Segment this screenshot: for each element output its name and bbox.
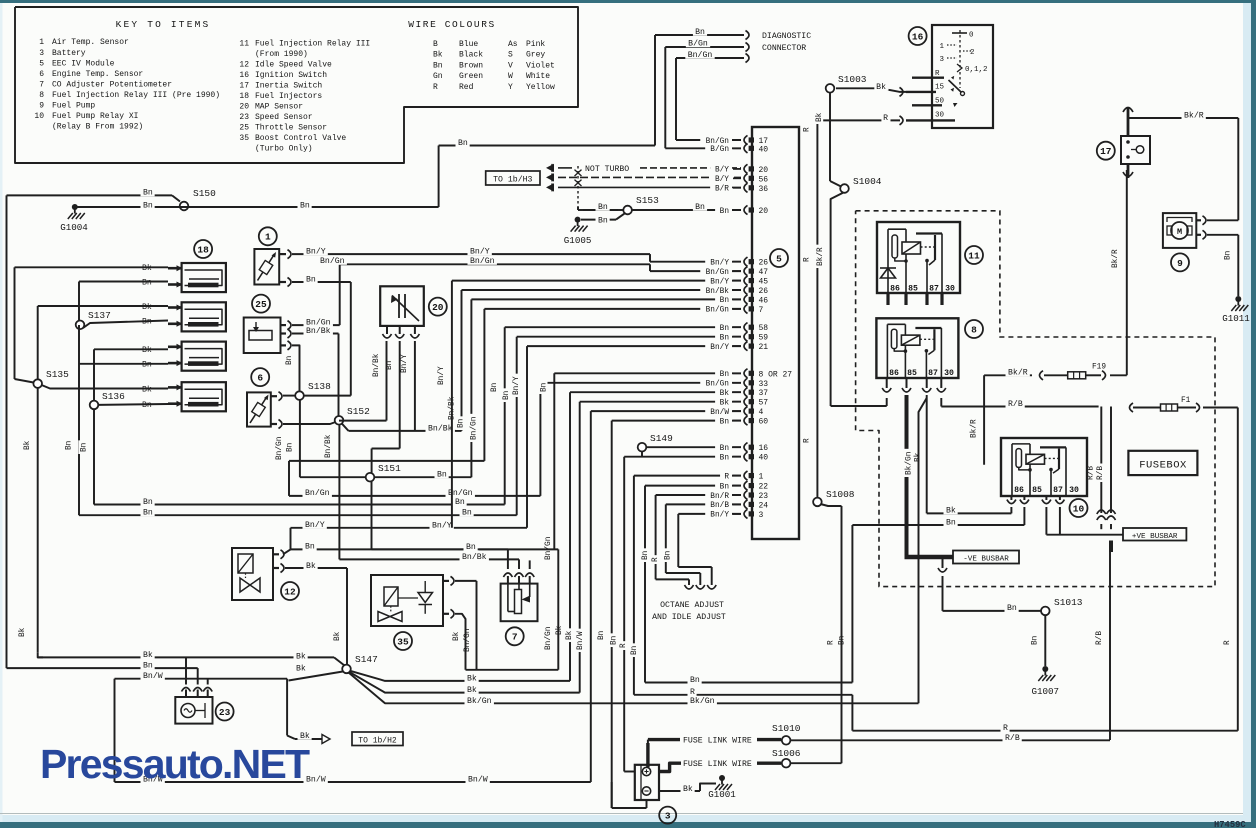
wire Bk/R S1004 drop bbox=[831, 193, 843, 406]
svg-text:5: 5 bbox=[776, 253, 782, 264]
wire R/B down to fuse link bbox=[1109, 552, 1111, 740]
svg-text:Pink: Pink bbox=[526, 40, 545, 49]
thick stub below +VE busbar bbox=[1109, 541, 1113, 553]
label R/B rot down bbox=[1094, 628, 1104, 647]
label 10 circle bbox=[1070, 499, 1088, 517]
label Bk/R top bbox=[1182, 110, 1206, 121]
svg-text:WIRE COLOURS: WIRE COLOURS bbox=[408, 19, 496, 30]
svg-text:87: 87 bbox=[1053, 486, 1063, 495]
arrow row3 bbox=[546, 183, 554, 191]
node S150 bbox=[180, 188, 216, 210]
svg-text:Yellow: Yellow bbox=[526, 83, 555, 92]
svg-text:18: 18 bbox=[239, 92, 249, 101]
svg-text:25: 25 bbox=[239, 124, 249, 133]
wire Bn/Gn exit bbox=[289, 495, 540, 497]
svg-text:1: 1 bbox=[39, 38, 44, 47]
svg-text:F1: F1 bbox=[1181, 397, 1191, 405]
wire Bk/R vertical from F19 bbox=[983, 375, 985, 465]
svg-text:Idle Speed Valve: Idle Speed Valve bbox=[255, 61, 332, 70]
label Bk/R F19 bbox=[1006, 367, 1030, 378]
label Bk/R rot bbox=[815, 245, 825, 268]
svg-text:Bn/Gn: Bn/Gn bbox=[320, 256, 345, 266]
svg-text:S149: S149 bbox=[650, 433, 673, 444]
svg-text:16: 16 bbox=[912, 31, 924, 42]
EEC IV module connector 5 bbox=[752, 127, 799, 539]
svg-text:Fuel Pump: Fuel Pump bbox=[52, 102, 95, 111]
svg-text:S152: S152 bbox=[347, 406, 370, 417]
svg-text:Bk/R: Bk/R bbox=[817, 247, 825, 266]
wire R vertical to S1008 bbox=[816, 120, 818, 497]
relay 11 pin stubs bbox=[888, 293, 942, 305]
svg-text:Bn: Bn bbox=[720, 325, 729, 333]
svg-text:Bk/R: Bk/R bbox=[1184, 110, 1204, 120]
wire Bn to speed sensor bbox=[7, 668, 198, 684]
label R/B bbox=[1006, 398, 1025, 409]
-VE BUSBAR box bbox=[953, 551, 1019, 564]
ECU pin symbols, numbers and wire colours bbox=[700, 135, 792, 520]
svg-text:Engine Temp. Sensor: Engine Temp. Sensor bbox=[52, 70, 143, 79]
wire R/B horizontal bbox=[941, 406, 1098, 408]
wire battery loop under bbox=[612, 782, 647, 808]
svg-text:Bn/Y: Bn/Y bbox=[305, 520, 325, 530]
label 3 circle bbox=[659, 807, 676, 824]
svg-text:Bn: Bn bbox=[839, 636, 847, 645]
wire Bn diag bbox=[655, 35, 744, 146]
svg-text:Bn/Y: Bn/Y bbox=[710, 344, 729, 352]
label Bn/Y s1 b bbox=[468, 246, 492, 256]
svg-text:G1001: G1001 bbox=[708, 789, 736, 800]
node S1003 bbox=[826, 74, 867, 93]
label Bn rot b23 bbox=[640, 548, 650, 562]
sensor 1 thermistor bbox=[258, 252, 277, 281]
svg-text:B/Gn: B/Gn bbox=[688, 38, 708, 48]
text NOT TURBO bbox=[583, 163, 632, 174]
svg-text:Bk: Bk bbox=[683, 784, 693, 794]
label Bn rot relay10 bbox=[837, 633, 847, 647]
wire Bn S1013 down bbox=[1044, 615, 1046, 666]
svg-text:Bn/R: Bn/R bbox=[710, 493, 729, 501]
svg-text:Bn: Bn bbox=[143, 662, 153, 671]
svg-text:1: 1 bbox=[265, 232, 271, 243]
svg-text:OCTANE ADJUST: OCTANE ADJUST bbox=[660, 601, 724, 610]
label Bn rot pump bbox=[1223, 248, 1233, 262]
svg-text:Bk: Bk bbox=[19, 627, 27, 637]
label Bn exit a1 bbox=[141, 496, 155, 507]
node S149 bbox=[638, 433, 673, 452]
svg-text:S1010: S1010 bbox=[772, 723, 801, 734]
svg-text:Bn: Bn bbox=[306, 275, 316, 284]
relay 10 pins bbox=[1007, 496, 1065, 504]
battery 3 box bbox=[635, 765, 659, 800]
label Bn/Gn s25 bbox=[304, 317, 333, 328]
svg-text:Bn: Bn bbox=[300, 201, 310, 210]
wire pin24 L bbox=[666, 504, 741, 573]
svg-text:24: 24 bbox=[759, 501, 769, 510]
svg-text:20: 20 bbox=[432, 302, 444, 313]
svg-text:Bn: Bn bbox=[80, 443, 88, 452]
label Bk r10 bbox=[944, 505, 958, 516]
label Bk S147 left upper bbox=[294, 651, 308, 662]
wire pump top pin bbox=[1207, 219, 1238, 221]
ground G1004 bbox=[60, 204, 88, 233]
wire Bk/Gn relay8 pin87 branch bbox=[919, 398, 927, 703]
svg-text:23: 23 bbox=[759, 492, 769, 501]
wire Bn injector1 bbox=[79, 282, 168, 322]
wire Bn upper run to diagnostic bbox=[439, 145, 655, 147]
wire pin7 riser bbox=[484, 309, 741, 461]
svg-text:87: 87 bbox=[928, 369, 938, 378]
sensor 25 pins bbox=[281, 321, 292, 350]
svg-text:18: 18 bbox=[197, 244, 209, 255]
watermark Pressauto.NET bbox=[40, 741, 310, 787]
wire S149 drop bbox=[641, 452, 643, 457]
wire pin1 L bbox=[634, 476, 741, 695]
svg-text:17: 17 bbox=[1100, 146, 1112, 157]
wire comp12 feed drop bbox=[290, 528, 292, 550]
svg-text:8: 8 bbox=[39, 91, 44, 100]
svg-text:9: 9 bbox=[1177, 258, 1183, 269]
wire Bk injector1 bbox=[15, 267, 169, 382]
svg-text:22: 22 bbox=[759, 483, 769, 492]
svg-text:S137: S137 bbox=[88, 310, 111, 321]
label Bn/Y rot map bbox=[399, 352, 409, 375]
label Bn ss bbox=[141, 660, 155, 671]
wire pin23 L bbox=[656, 495, 741, 579]
wire Bk/R inertia vertical bbox=[1126, 170, 1128, 375]
svg-text:Bn/Gn: Bn/Gn bbox=[276, 437, 284, 460]
svg-text:Bn: Bn bbox=[665, 551, 673, 560]
svg-text:Bn: Bn bbox=[305, 543, 315, 552]
node S1008 bbox=[813, 489, 855, 506]
svg-text:As: As bbox=[508, 40, 518, 49]
wire S147 to Bk riser a bbox=[351, 671, 571, 681]
svg-text:Bn: Bn bbox=[598, 203, 608, 212]
svg-text:Bn/Gn: Bn/Gn bbox=[706, 307, 729, 315]
svg-text:Bn/W: Bn/W bbox=[468, 774, 488, 784]
svg-text:Bn/Y: Bn/Y bbox=[306, 246, 326, 256]
wire pin40b L bbox=[624, 457, 741, 772]
sensor 25 potentiometer bbox=[249, 322, 272, 340]
svg-text:Bn: Bn bbox=[462, 508, 472, 517]
svg-text:M: M bbox=[1177, 227, 1182, 237]
octane adjust pins bbox=[656, 567, 717, 589]
svg-text:G1004: G1004 bbox=[60, 222, 88, 233]
svg-text:Ignition Switch: Ignition Switch bbox=[255, 71, 327, 80]
label Bn mid a bbox=[688, 674, 702, 685]
label Bk rot b37 bbox=[554, 623, 564, 637]
svg-text:Bk: Bk bbox=[296, 663, 306, 673]
svg-text:35: 35 bbox=[239, 134, 249, 143]
wire sensor6 to S138 bbox=[283, 395, 295, 397]
border bottom teal bar bbox=[0, 822, 1256, 828]
svg-text:Bk/Gn: Bk/Gn bbox=[690, 696, 715, 706]
label Bn/Gn diag bbox=[685, 49, 714, 60]
svg-text:Fuel Injectors: Fuel Injectors bbox=[255, 92, 322, 101]
label R rot s1006 bbox=[826, 638, 836, 647]
svg-text:MAP Sensor: MAP Sensor bbox=[255, 103, 303, 112]
label Bn r10 bbox=[944, 517, 958, 528]
relay 10 pin labels bbox=[1014, 486, 1079, 495]
ignition switch lever bbox=[949, 76, 965, 107]
svg-text:S153: S153 bbox=[636, 195, 659, 206]
wire Bk/R S1004 to relay8 pin86 bbox=[831, 398, 887, 406]
key list column 1 bbox=[34, 38, 220, 131]
svg-text:7: 7 bbox=[759, 306, 764, 315]
svg-text:S147: S147 bbox=[355, 654, 378, 665]
svg-text:Bn: Bn bbox=[143, 498, 153, 507]
wire pin21 L bbox=[527, 346, 741, 528]
svg-text:R: R bbox=[433, 83, 438, 92]
label Bk rot lower bbox=[17, 625, 27, 639]
CO adjuster internal bbox=[508, 584, 530, 614]
label Bn/Gn top a bbox=[318, 255, 347, 266]
svg-text:Bn: Bn bbox=[143, 508, 153, 517]
label Bn G1005 bbox=[596, 215, 610, 226]
label Bn/Bk s25 bbox=[304, 325, 333, 336]
label Bn/Y exit b bbox=[430, 520, 454, 531]
label R ignition bbox=[881, 112, 890, 123]
wire Bn/Gn sensor25 riser bbox=[292, 264, 340, 325]
label R mid a bbox=[688, 687, 697, 698]
svg-text:CONNECTOR: CONNECTOR bbox=[762, 44, 806, 53]
wire pin59 L bbox=[517, 337, 741, 516]
svg-text:Bn: Bn bbox=[433, 61, 443, 70]
key box outline bbox=[15, 7, 578, 163]
svg-text:30: 30 bbox=[945, 285, 955, 294]
wire colours table bbox=[433, 40, 555, 92]
node S1013 bbox=[1041, 597, 1083, 615]
ground G1011 bbox=[1222, 296, 1250, 324]
svg-text:Bn: Bn bbox=[142, 401, 152, 410]
wire S149 branch to battery plus bbox=[624, 771, 635, 773]
label 23 circle bbox=[216, 703, 234, 721]
border right light strip bbox=[1243, 3, 1251, 822]
svg-text:Bk/R: Bk/R bbox=[1112, 249, 1120, 268]
relay 11 pin labels bbox=[890, 285, 955, 294]
MAP sensor internal bbox=[391, 294, 419, 321]
node S135 bbox=[33, 369, 69, 388]
thick wire -VE from relay8 pin85 bbox=[905, 395, 954, 557]
wire Bn sensor1 to S138 bbox=[292, 282, 351, 396]
label Bn/Y rot b21 bbox=[511, 374, 521, 397]
label Bn S150 right bbox=[298, 200, 312, 211]
svg-text:White: White bbox=[526, 72, 550, 81]
wire F1 right bbox=[1178, 403, 1238, 412]
wire Bk valve35 bottom pin bbox=[455, 614, 466, 670]
svg-text:35: 35 bbox=[397, 636, 409, 647]
wire Bn exit b bbox=[79, 514, 517, 516]
svg-text:Bn: Bn bbox=[720, 455, 729, 463]
wire pin16 to S149 bbox=[646, 446, 741, 448]
wire Bk S1003 drop bbox=[830, 93, 841, 187]
svg-text:Bn: Bn bbox=[287, 443, 295, 452]
fuel injectors 18 (four) bbox=[168, 263, 226, 411]
svg-text:EEC IV Module: EEC IV Module bbox=[52, 59, 115, 68]
svg-text:47: 47 bbox=[759, 268, 769, 277]
border left light strip bbox=[0, 3, 3, 822]
svg-text:S1006: S1006 bbox=[772, 748, 801, 759]
wire Bn/Y sensor1 to ECU bbox=[292, 254, 741, 262]
relay 8 pin labels bbox=[889, 369, 954, 378]
svg-text:AND IDLE ADJUST: AND IDLE ADJUST bbox=[652, 613, 726, 622]
arrow not-turbo row1 bbox=[546, 164, 554, 172]
svg-text:16: 16 bbox=[239, 71, 249, 80]
label Bn/Y rot b45 bbox=[436, 364, 446, 387]
svg-text:FUSEBOX: FUSEBOX bbox=[1139, 460, 1187, 472]
svg-text:Black: Black bbox=[459, 51, 483, 60]
wire R ignition 30 bbox=[817, 116, 903, 125]
label R/B rot b bbox=[1095, 463, 1105, 482]
svg-text:Bk: Bk bbox=[720, 390, 730, 398]
svg-text:7: 7 bbox=[512, 632, 518, 643]
svg-text:11: 11 bbox=[239, 40, 249, 49]
svg-text:R: R bbox=[1003, 724, 1008, 733]
svg-text:Bn/Y: Bn/Y bbox=[438, 366, 446, 385]
svg-text:60: 60 bbox=[759, 418, 769, 427]
wire Bk relay10 86 bbox=[1010, 507, 1012, 513]
svg-text:Bn: Bn bbox=[720, 371, 729, 379]
wire pin8or27 L bbox=[554, 373, 741, 549]
label Bn/W ss bbox=[141, 671, 165, 682]
svg-text:46: 46 bbox=[759, 296, 769, 305]
svg-text:Bn: Bn bbox=[610, 636, 618, 645]
svg-text:Brown: Brown bbox=[459, 61, 483, 70]
svg-text:R: R bbox=[620, 643, 628, 648]
svg-text:Bn: Bn bbox=[541, 383, 549, 392]
label 7 circle bbox=[506, 627, 524, 645]
diagnostic connector pins bbox=[746, 31, 750, 63]
injector pin colour labels bbox=[140, 263, 154, 410]
svg-text:Bn/Bk: Bn/Bk bbox=[706, 288, 730, 296]
label R rot a bbox=[802, 125, 812, 134]
label R rot b1 bbox=[618, 641, 628, 650]
label Bk S147 left lower bbox=[294, 663, 308, 674]
node S152 bbox=[335, 406, 370, 425]
wire Bk battery minus bbox=[659, 784, 716, 792]
air temp sensor 1 box bbox=[254, 249, 279, 285]
text AND IDLE ADJUST bbox=[652, 613, 726, 622]
CO adjuster 7 box bbox=[501, 584, 538, 622]
svg-text:33: 33 bbox=[759, 380, 769, 389]
svg-text:(Relay B From 1992): (Relay B From 1992) bbox=[52, 123, 143, 132]
ignition switch 16 box bbox=[932, 25, 993, 128]
label Bn co bbox=[464, 541, 478, 552]
label 5 circle bbox=[770, 249, 788, 267]
MAP pins bbox=[383, 326, 420, 338]
wire map pin1 down bbox=[386, 341, 388, 421]
key box title KEY TO ITEMS bbox=[116, 19, 211, 30]
wire sensor pin1 tap bbox=[185, 657, 187, 684]
label Bk fan b bbox=[465, 685, 479, 696]
wire S138 drop to S151 line bbox=[299, 400, 301, 477]
svg-text:Fuel Pump Relay XI: Fuel Pump Relay XI bbox=[52, 112, 138, 121]
wire inertia vertical bbox=[1123, 107, 1133, 178]
svg-text:R: R bbox=[828, 640, 836, 645]
label Bn/W bot a bbox=[141, 774, 165, 785]
label Bn exit12 a bbox=[303, 541, 317, 552]
wire pin4 L bbox=[591, 411, 741, 782]
node S1010 bbox=[772, 723, 801, 745]
label Bk ss bbox=[141, 649, 155, 660]
svg-text:Bn/Gn: Bn/Gn bbox=[688, 50, 713, 60]
node S151 bbox=[366, 463, 401, 482]
svg-text:20: 20 bbox=[759, 166, 769, 175]
label Bn rot b8 bbox=[539, 380, 549, 394]
svg-text:TO 1b/H2: TO 1b/H2 bbox=[358, 736, 397, 745]
svg-text:9: 9 bbox=[39, 102, 44, 111]
svg-text:26: 26 bbox=[759, 259, 769, 268]
svg-text:Bk: Bk bbox=[467, 685, 477, 695]
wire Bn/Bk riser pin26 bbox=[462, 290, 742, 431]
svg-text:R: R bbox=[724, 473, 729, 481]
svg-text:KEY TO ITEMS: KEY TO ITEMS bbox=[116, 19, 211, 30]
svg-text:Bn/Gn: Bn/Gn bbox=[305, 488, 330, 498]
label Bk/R rot r10 bbox=[968, 417, 978, 440]
svg-text:3: 3 bbox=[39, 49, 44, 58]
label Bn/Bk S152 bbox=[426, 423, 455, 434]
svg-text:Bn/Y: Bn/Y bbox=[432, 520, 452, 530]
svg-text:R: R bbox=[804, 438, 812, 443]
label Bn/Bk rot S152 bbox=[323, 432, 333, 460]
svg-text:R: R bbox=[804, 257, 812, 262]
svg-text:Red: Red bbox=[459, 83, 474, 92]
wire B/Y row2 bbox=[558, 176, 741, 178]
svg-text:Boost Control Valve: Boost Control Valve bbox=[255, 134, 346, 143]
label Bn rot b40 bbox=[608, 633, 618, 647]
svg-text:17: 17 bbox=[239, 82, 249, 91]
wire Bk valve12 bbox=[285, 568, 347, 665]
label R rot b24 bbox=[650, 555, 660, 564]
wire F19 to inertia riser bbox=[1086, 371, 1127, 380]
svg-text:G1011: G1011 bbox=[1222, 313, 1250, 324]
svg-text:36: 36 bbox=[759, 185, 769, 194]
svg-text:S1004: S1004 bbox=[853, 176, 882, 187]
label Bn diag bbox=[693, 26, 707, 37]
label Bk rot r87a bbox=[912, 450, 922, 464]
fuel injection relay 11 box bbox=[877, 222, 960, 293]
svg-text:Bn/Gn: Bn/Gn bbox=[470, 256, 495, 266]
FUSEBOX box bbox=[1128, 451, 1197, 475]
wire drop to H2 link bbox=[287, 672, 343, 740]
label Bn rot b58 bbox=[489, 380, 499, 394]
svg-text:Bk: Bk bbox=[946, 505, 956, 515]
boost control valve 35 box bbox=[371, 575, 443, 626]
wire Bn/Y exit bbox=[291, 527, 528, 529]
wire collector to Bn/Gn riser bbox=[466, 549, 559, 669]
svg-text:TO 1b/H3: TO 1b/H3 bbox=[493, 175, 532, 185]
wire Bn exit a bbox=[94, 504, 505, 506]
label 11 circle bbox=[965, 246, 983, 264]
svg-text:3: 3 bbox=[759, 511, 764, 520]
svg-text:S1013: S1013 bbox=[1054, 597, 1083, 608]
fuse F1 bbox=[1161, 397, 1191, 411]
wire S1010 to R/B riser bbox=[791, 739, 1111, 741]
label Bn/Y exit a bbox=[303, 520, 327, 531]
label Bk fan a bbox=[465, 673, 479, 684]
label Bk/R rot inertia bbox=[1110, 247, 1120, 270]
battery terminals bbox=[642, 767, 650, 795]
svg-text:S135: S135 bbox=[46, 369, 69, 380]
fuel injection relay 8 box bbox=[876, 318, 958, 378]
wire Bk main left vertical bbox=[38, 388, 43, 658]
wire Bk injector3 from S136 riser bbox=[94, 349, 168, 400]
wire Bn/Gn valve35 top pin bbox=[455, 581, 477, 670]
wire R pin1 path bbox=[634, 695, 1238, 731]
label Bk/Gn fan a bbox=[465, 695, 494, 706]
dashed box around relays bbox=[856, 211, 1215, 587]
svg-text:Bn: Bn bbox=[1225, 251, 1233, 260]
label Bk rot v35 bbox=[451, 629, 461, 643]
